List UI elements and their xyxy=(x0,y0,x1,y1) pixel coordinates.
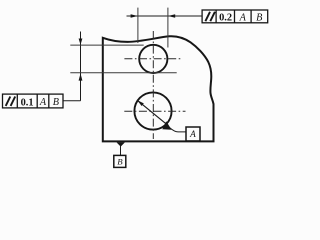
parallelism symbol top xyxy=(205,12,215,21)
datum A filled triangle on lower hole xyxy=(162,121,171,129)
top left extension line xyxy=(137,8,139,43)
vertical centerline xyxy=(152,31,154,139)
lower hole horizontal centerline xyxy=(124,110,185,112)
part outline xyxy=(103,36,214,141)
top dimension line with leader to FCF xyxy=(127,15,203,17)
feature control frame top: // 0.2 A B xyxy=(202,10,268,23)
datum B filled triangle on bottom edge xyxy=(116,142,125,146)
top right extension line xyxy=(167,8,169,48)
datum A leader xyxy=(170,128,186,132)
lower hole diameter line (diagonal) xyxy=(137,100,166,124)
diagonal arrowhead at circle upper-left xyxy=(137,100,144,106)
left dimension bottom arrowhead xyxy=(79,73,83,80)
top dimension left arrowhead xyxy=(131,14,138,18)
hole upper circle xyxy=(139,45,167,73)
svg-text:B: B xyxy=(53,97,59,108)
svg-text:0.2: 0.2 xyxy=(219,13,232,24)
svg-text:B: B xyxy=(256,12,262,23)
left dimension line (vertical) xyxy=(80,32,82,101)
hole lower circle (datum A feature) xyxy=(134,92,171,129)
svg-text:A: A xyxy=(239,12,247,23)
leader from left FCF to dimension line xyxy=(63,100,81,102)
left dimension top arrowhead xyxy=(79,39,83,45)
svg-text:A: A xyxy=(189,129,196,139)
lower extension line (hole bottom tangent) xyxy=(70,72,176,74)
upper hole horizontal centerline xyxy=(124,58,181,60)
upper extension line (hole top tangent) xyxy=(70,44,143,46)
svg-text:A: A xyxy=(39,97,47,108)
feature control frame left: // 0.1 A B xyxy=(3,94,64,108)
datum A box xyxy=(186,127,200,141)
datum B box xyxy=(114,155,126,167)
svg-text:0.1: 0.1 xyxy=(21,97,34,108)
parallelism symbol left xyxy=(6,97,16,106)
svg-text:B: B xyxy=(117,157,123,167)
top dimension right arrowhead xyxy=(168,14,175,18)
datum B leader xyxy=(120,146,122,155)
